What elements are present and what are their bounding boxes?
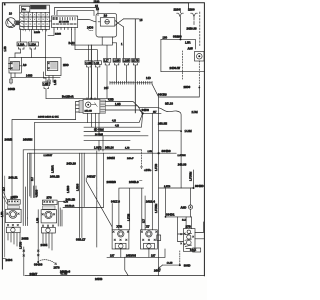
svg-text:1/1SB: 1/1SB bbox=[55, 34, 61, 36]
svg-text:24D3.W: 24D3.W bbox=[170, 66, 181, 70]
svg-text:11S0: 11S0 bbox=[188, 7, 195, 11]
svg-text:24D.23: 24D.23 bbox=[67, 162, 77, 166]
wire right of box bbox=[96, 188, 98, 247]
svg-text:1.24B/17: 1.24B/17 bbox=[44, 155, 54, 157]
bus wire 15 lower bbox=[57, 11, 94, 16]
svg-text:B+12: B+12 bbox=[69, 41, 76, 45]
twin verticals center bbox=[80, 153, 85, 237]
ignition output arrows bbox=[115, 19, 124, 27]
bus row 5 bbox=[84, 140, 130, 142]
bus row 2 bbox=[84, 113, 143, 127]
svg-text:14D: 14D bbox=[146, 76, 151, 80]
svg-text:3/D.2S: 3/D.2S bbox=[165, 102, 173, 106]
motor wires right bbox=[195, 222, 204, 239]
page frame bbox=[2, 3, 204, 276]
relay right wire 3 bbox=[106, 110, 143, 113]
svg-text:334D1: 334D1 bbox=[166, 213, 175, 217]
svg-text:10: 10 bbox=[104, 14, 108, 18]
svg-text:1.5B/8: 1.5B/8 bbox=[67, 185, 70, 193]
relay bus bbox=[21, 57, 45, 59]
svg-text:B+12B+R: B+12B+R bbox=[62, 94, 74, 98]
wire 243.38 down bbox=[180, 131, 182, 188]
svg-text:4.S: 4.S bbox=[115, 123, 119, 127]
svg-text:33B.17: 33B.17 bbox=[76, 238, 86, 242]
wire box to bottom bus bbox=[125, 257, 128, 275]
fuse row center 4 bbox=[132, 58, 139, 112]
cluster L1 right wires bbox=[25, 187, 27, 226]
junction 14.3M bbox=[180, 130, 182, 132]
svg-text:X7: X7 bbox=[146, 224, 150, 228]
fuse box 11/7 bbox=[20, 5, 50, 30]
left inner rail bbox=[4, 176, 6, 257]
svg-text:274: 274 bbox=[11, 196, 16, 200]
wire connector to ignition bbox=[78, 20, 96, 22]
svg-text:27S: 27S bbox=[47, 196, 52, 200]
svg-text:24B/7: 24B/7 bbox=[30, 272, 38, 276]
svg-text:24S/3H: 24S/3H bbox=[23, 138, 32, 142]
junction 2408 bbox=[142, 112, 144, 114]
svg-text:1S7: 1S7 bbox=[151, 254, 156, 257]
fuse row center 2 bbox=[112, 43, 120, 82]
svg-text:243.38: 243.38 bbox=[178, 163, 187, 167]
svg-text:1.17: 1.17 bbox=[104, 61, 109, 63]
motor wire left bbox=[178, 217, 184, 242]
fuses mid pair a bbox=[85, 45, 93, 98]
right mid connector wire bbox=[119, 188, 145, 230]
wire to lamp R bbox=[34, 122, 36, 197]
svg-text:24S/B: 24S/B bbox=[5, 138, 13, 142]
top right fuse 1150 a bbox=[174, 7, 184, 39]
wire B1 feed bbox=[111, 204, 113, 230]
svg-text:1.1SB: 1.1SB bbox=[113, 61, 120, 63]
svg-text:24S/H: 24S/H bbox=[107, 156, 115, 160]
svg-text:1.5B: 1.5B bbox=[54, 80, 57, 85]
relay bottom pins bbox=[88, 113, 100, 136]
wire fusebox to relay 200 bbox=[44, 29, 46, 57]
headlamp cluster right 274 bbox=[41, 196, 57, 234]
svg-text:1X.1X: 1X.1X bbox=[190, 250, 196, 252]
dotted ground arc bbox=[40, 260, 57, 265]
connector strip 14D bbox=[110, 81, 152, 84]
svg-text:11S0: 11S0 bbox=[174, 7, 181, 11]
svg-text:1.5B/R: 1.5B/R bbox=[52, 165, 55, 173]
svg-text:1.1B: 1.1B bbox=[94, 63, 99, 65]
svg-text:23D9: 23D9 bbox=[184, 85, 191, 89]
dashed drop from lamp bbox=[198, 61, 200, 88]
svg-text:4.S: 4.S bbox=[112, 119, 116, 123]
svg-text:117: 117 bbox=[31, 176, 34, 181]
svg-text:3417.8: 3417.8 bbox=[111, 200, 120, 204]
svg-text:34CR3: 34CR3 bbox=[158, 92, 167, 96]
wire L1 to bottom bus bbox=[23, 247, 25, 276]
svg-text:24S7: 24S7 bbox=[154, 268, 161, 272]
svg-text:24S/8+8: 24S/8+8 bbox=[60, 270, 71, 274]
wire switch to fuse box bbox=[18, 22, 21, 24]
motor bottom-right connector bbox=[193, 248, 201, 252]
wire 33480 line bbox=[159, 187, 194, 189]
svg-text:24S3B 24D/8 11 0XX: 24S3B 24D/8 11 0XX bbox=[38, 116, 59, 118]
long bus line upper bbox=[23, 150, 141, 226]
svg-text:1S0: 1S0 bbox=[163, 35, 168, 39]
svg-text:2.DM: 2.DM bbox=[192, 110, 198, 114]
svg-text:34D27: 34D27 bbox=[87, 175, 96, 179]
svg-text:33280: 33280 bbox=[173, 35, 182, 39]
long bus line lower bbox=[28, 153, 177, 218]
svg-text:3/0.5B+R: 3/0.5B+R bbox=[65, 206, 75, 208]
diagonal feeds into L1 bbox=[2, 190, 7, 205]
svg-text:14SB: 14SB bbox=[26, 73, 33, 77]
svg-text:11S0: 11S0 bbox=[94, 0, 100, 3]
ignition switch feed symbol (circle with slash) bbox=[6, 18, 16, 28]
svg-text:1.7B: 1.7B bbox=[125, 148, 130, 150]
svg-text:14.1B: 14.1B bbox=[167, 263, 173, 265]
svg-text:1.5B: 1.5B bbox=[36, 218, 39, 223]
svg-text:0.7S: 0.7S bbox=[64, 202, 69, 204]
relay A/C left bbox=[9, 58, 22, 74]
svg-text:24SB: 24SB bbox=[8, 87, 15, 91]
wire ignition base down-left bbox=[72, 30, 113, 59]
svg-text:1.5T/8: 1.5T/8 bbox=[20, 241, 23, 249]
svg-text:3D OhM: 3D OhM bbox=[94, 128, 104, 132]
svg-text:243.3H: 243.3H bbox=[158, 122, 167, 126]
relay right wire 1 bbox=[106, 102, 182, 132]
headlamp cluster left 274 bbox=[6, 196, 22, 233]
svg-text:1.S(R): 1.S(R) bbox=[94, 146, 102, 150]
svg-text:334BD: 334BD bbox=[195, 184, 204, 188]
svg-text:1.5T/8M: 1.5T/8M bbox=[155, 204, 158, 213]
svg-text:24SB/8: 24SB/8 bbox=[107, 180, 117, 184]
wiper motor cluster 27B bbox=[183, 225, 195, 252]
relay left stubs bbox=[76, 102, 80, 120]
svg-text:334B6: 334B6 bbox=[162, 149, 171, 153]
dashed line right top bbox=[199, 12, 201, 47]
lamp cluster X7B bbox=[112, 224, 129, 249]
svg-text:24DB: 24DB bbox=[95, 277, 102, 281]
svg-text:2DD: 2DD bbox=[63, 63, 69, 67]
ground junction left lamp bbox=[37, 261, 39, 263]
svg-text:1.5T/8: 1.5T/8 bbox=[155, 163, 158, 171]
lamp cluster X7 bbox=[141, 224, 158, 249]
svg-text:1S7: 1S7 bbox=[110, 254, 115, 257]
bus row 4 bbox=[84, 135, 148, 137]
cluster L1 tails bbox=[8, 233, 20, 247]
cluster bottom bus bbox=[107, 249, 165, 257]
relay right wire 2 bbox=[106, 106, 143, 114]
svg-text:24S.11: 24S.11 bbox=[9, 176, 18, 180]
svg-text:24D8: 24D8 bbox=[142, 108, 150, 112]
svg-text:24D/3H: 24D/3H bbox=[126, 253, 136, 257]
svg-text:1.5B: 1.5B bbox=[4, 46, 7, 51]
svg-text:1.5T/8: 1.5T/8 bbox=[164, 186, 171, 188]
svg-text:24S+F: 24S+F bbox=[127, 158, 134, 160]
fuse row center 1 bbox=[104, 58, 111, 98]
bus B+12B+R bbox=[46, 97, 113, 99]
connector box C202 bbox=[52, 16, 78, 30]
wiper relay center bbox=[79, 98, 106, 114]
wires to cluster L2 top bbox=[31, 153, 36, 197]
svg-text:1.ST/8N: 1.ST/8N bbox=[178, 155, 186, 157]
relay L1 ground stub bbox=[10, 77, 12, 84]
svg-text:334S6: 334S6 bbox=[34, 263, 43, 267]
svg-text:4.SB: 4.SB bbox=[108, 98, 114, 102]
svg-text:A35: A35 bbox=[188, 47, 194, 51]
connector pin wire down bbox=[48, 30, 54, 36]
svg-text:1.5T/8M: 1.5T/8M bbox=[189, 172, 192, 181]
svg-text:1.1SB: 1.1SB bbox=[123, 61, 130, 63]
motor wires top bbox=[186, 217, 191, 229]
relay lower bus bbox=[11, 73, 60, 77]
svg-text:1.5B/8: 1.5B/8 bbox=[77, 183, 80, 191]
svg-text:14.3M: 14.3M bbox=[185, 129, 192, 133]
fuse box pin comb bbox=[26, 29, 47, 31]
bus row 1 bbox=[35, 113, 143, 122]
svg-text:1.5R: 1.5R bbox=[1, 212, 4, 217]
svg-text:24S4: 24S4 bbox=[6, 258, 13, 262]
wire P right bbox=[143, 112, 161, 114]
fuse 1.15A bbox=[15, 30, 27, 58]
bus net left feed bbox=[12, 120, 76, 200]
wire x193 up bbox=[193, 170, 195, 188]
connector plug at switch bbox=[16, 21, 19, 26]
svg-text:1.SB: 1.SB bbox=[115, 102, 121, 106]
svg-text:1/1SB: 1/1SB bbox=[34, 32, 40, 34]
lamp A30 bbox=[190, 188, 192, 205]
svg-text:24SB.8: 24SB.8 bbox=[129, 180, 139, 184]
svg-text:24 OhM: 24 OhM bbox=[95, 134, 103, 136]
wire P down bbox=[151, 113, 153, 229]
svg-text:A3D: A3D bbox=[181, 205, 187, 209]
top right fuse 1150 b bbox=[188, 7, 197, 24]
relay 200 stubs bbox=[49, 76, 53, 84]
junction 33401 bbox=[166, 188, 192, 217]
svg-text:A0: A0 bbox=[23, 63, 27, 67]
wire 15 to fuses bbox=[124, 19, 140, 59]
svg-text:1.1DA: 1.1DA bbox=[29, 43, 36, 46]
svg-text:24S4: 24S4 bbox=[41, 243, 48, 247]
wire ignition 1 down bbox=[123, 27, 125, 59]
svg-text:24F: 24F bbox=[104, 86, 109, 90]
svg-text:X7B: X7B bbox=[117, 224, 123, 228]
svg-text:15 I 30 50: 15 I 30 50 bbox=[59, 22, 70, 24]
svg-text:334D: 334D bbox=[184, 263, 191, 267]
bottom bus bbox=[25, 275, 205, 277]
ignition switch inner bbox=[98, 18, 115, 26]
svg-text:1.5R: 1.5R bbox=[185, 41, 191, 45]
svg-text:243.14: 243.14 bbox=[105, 146, 114, 150]
svg-text:1.5T/8: 1.5T/8 bbox=[128, 213, 131, 221]
dashed wire 2403W bbox=[182, 51, 184, 80]
svg-text:24S.1B: 24S.1B bbox=[50, 175, 60, 179]
svg-text:1.1SB: 1.1SB bbox=[86, 63, 93, 65]
central unit box bbox=[30, 153, 104, 207]
svg-text:2418.4: 2418.4 bbox=[146, 200, 155, 204]
bus wire 15 upper bbox=[55, 8, 99, 16]
junction wire 33280 bbox=[161, 39, 196, 49]
fuse 1.10A bbox=[29, 30, 39, 58]
svg-text:+246+: +246+ bbox=[144, 168, 152, 172]
motor ground dashed bbox=[179, 251, 181, 265]
svg-text:1D.7B: 1D.7B bbox=[132, 61, 139, 63]
svg-text:24SB: 24SB bbox=[22, 237, 29, 241]
right rail wires bbox=[158, 97, 160, 276]
cluster L2 tails bbox=[43, 233, 52, 250]
motor side pins bbox=[181, 234, 182, 245]
relay 200 bbox=[46, 58, 61, 76]
wire left drop bbox=[37, 210, 39, 262]
wire 34CR3 bbox=[152, 84, 199, 97]
bus wire 30 bbox=[120, 3, 189, 9]
svg-text:2410.38: 2410.38 bbox=[187, 27, 198, 31]
fuse 1.5B mid bbox=[43, 72, 50, 98]
wire 34027 diagonal bbox=[86, 178, 112, 230]
bus row 3 bbox=[84, 131, 140, 133]
drop wires to long bus bbox=[97, 136, 103, 188]
svg-text:117: 117 bbox=[143, 218, 146, 223]
cluster L2 right wires bbox=[58, 202, 63, 226]
svg-text:267S: 267S bbox=[54, 266, 60, 270]
lamp A35 bbox=[195, 52, 205, 62]
svg-text:24D.3B: 24D.3B bbox=[85, 111, 93, 113]
fuses mid pair b bbox=[75, 30, 101, 99]
ignition switch unit box bbox=[96, 13, 117, 37]
svg-text:1.1SA: 1.1SA bbox=[18, 43, 25, 46]
wire fusebox to connector bbox=[50, 20, 52, 22]
svg-text:1.SB: 1.SB bbox=[43, 84, 48, 86]
wire box right bbox=[161, 39, 205, 71]
fuse row center 3 bbox=[123, 58, 130, 81]
